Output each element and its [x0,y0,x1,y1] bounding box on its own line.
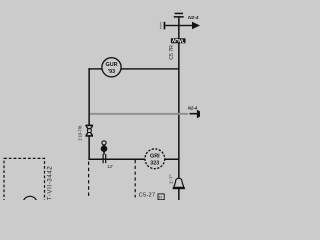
top off-page arrow [192,22,200,30]
equipment circle [23,196,37,210]
svg-text:1'10-7/8: 1'10-7/8 [78,125,83,141]
right off-page stub [190,113,198,115]
svg-text:1'-7": 1'-7" [168,174,174,184]
drain funnel [174,178,184,187]
gray process line [90,113,188,115]
balloon GUR 93 [102,58,121,77]
valve V2 [85,125,93,137]
vent cap V1 [174,13,184,18]
svg-text:N2-4: N2-4 [188,105,198,110]
hatched tag box [171,38,186,43]
wire corner to balloon [88,68,102,69]
svg-text:12': 12' [107,164,113,169]
wire balloon to main vertical [121,68,178,69]
sample connection bars [103,154,107,163]
svg-text:'93: '93 [108,69,115,75]
small tag box [158,194,164,200]
svg-text:GRI: GRI [150,154,160,160]
dashed stub below corner [88,162,90,198]
sample connection ring [102,141,106,145]
svg-text:N2-4: N2-4 [188,15,199,21]
main vertical wire [178,18,180,200]
dashed drop wire [134,160,136,198]
balloon GRI 323 [145,149,165,169]
wire balloon2 to main vertical [165,159,179,161]
sample connection ball [101,145,108,152]
svg-text:C5-27: C5-27 [139,192,156,198]
svg-text:FI: FI [159,196,162,200]
bottom horizontal wire [88,159,145,161]
svg-text:323: 323 [150,160,159,166]
left branch vertical wire lower [88,136,90,160]
hose coupling bars [160,22,165,30]
wire to top arrow [165,25,194,26]
svg-text:C5 7R: C5 7R [169,45,175,60]
right off-page arrow [197,110,200,118]
svg-text:T-VII-3442: T-VII-3442 [46,166,53,200]
dashed equipment box [4,158,45,204]
svg-text:GUR: GUR [106,62,118,68]
left branch vertical wire upper [88,68,90,125]
